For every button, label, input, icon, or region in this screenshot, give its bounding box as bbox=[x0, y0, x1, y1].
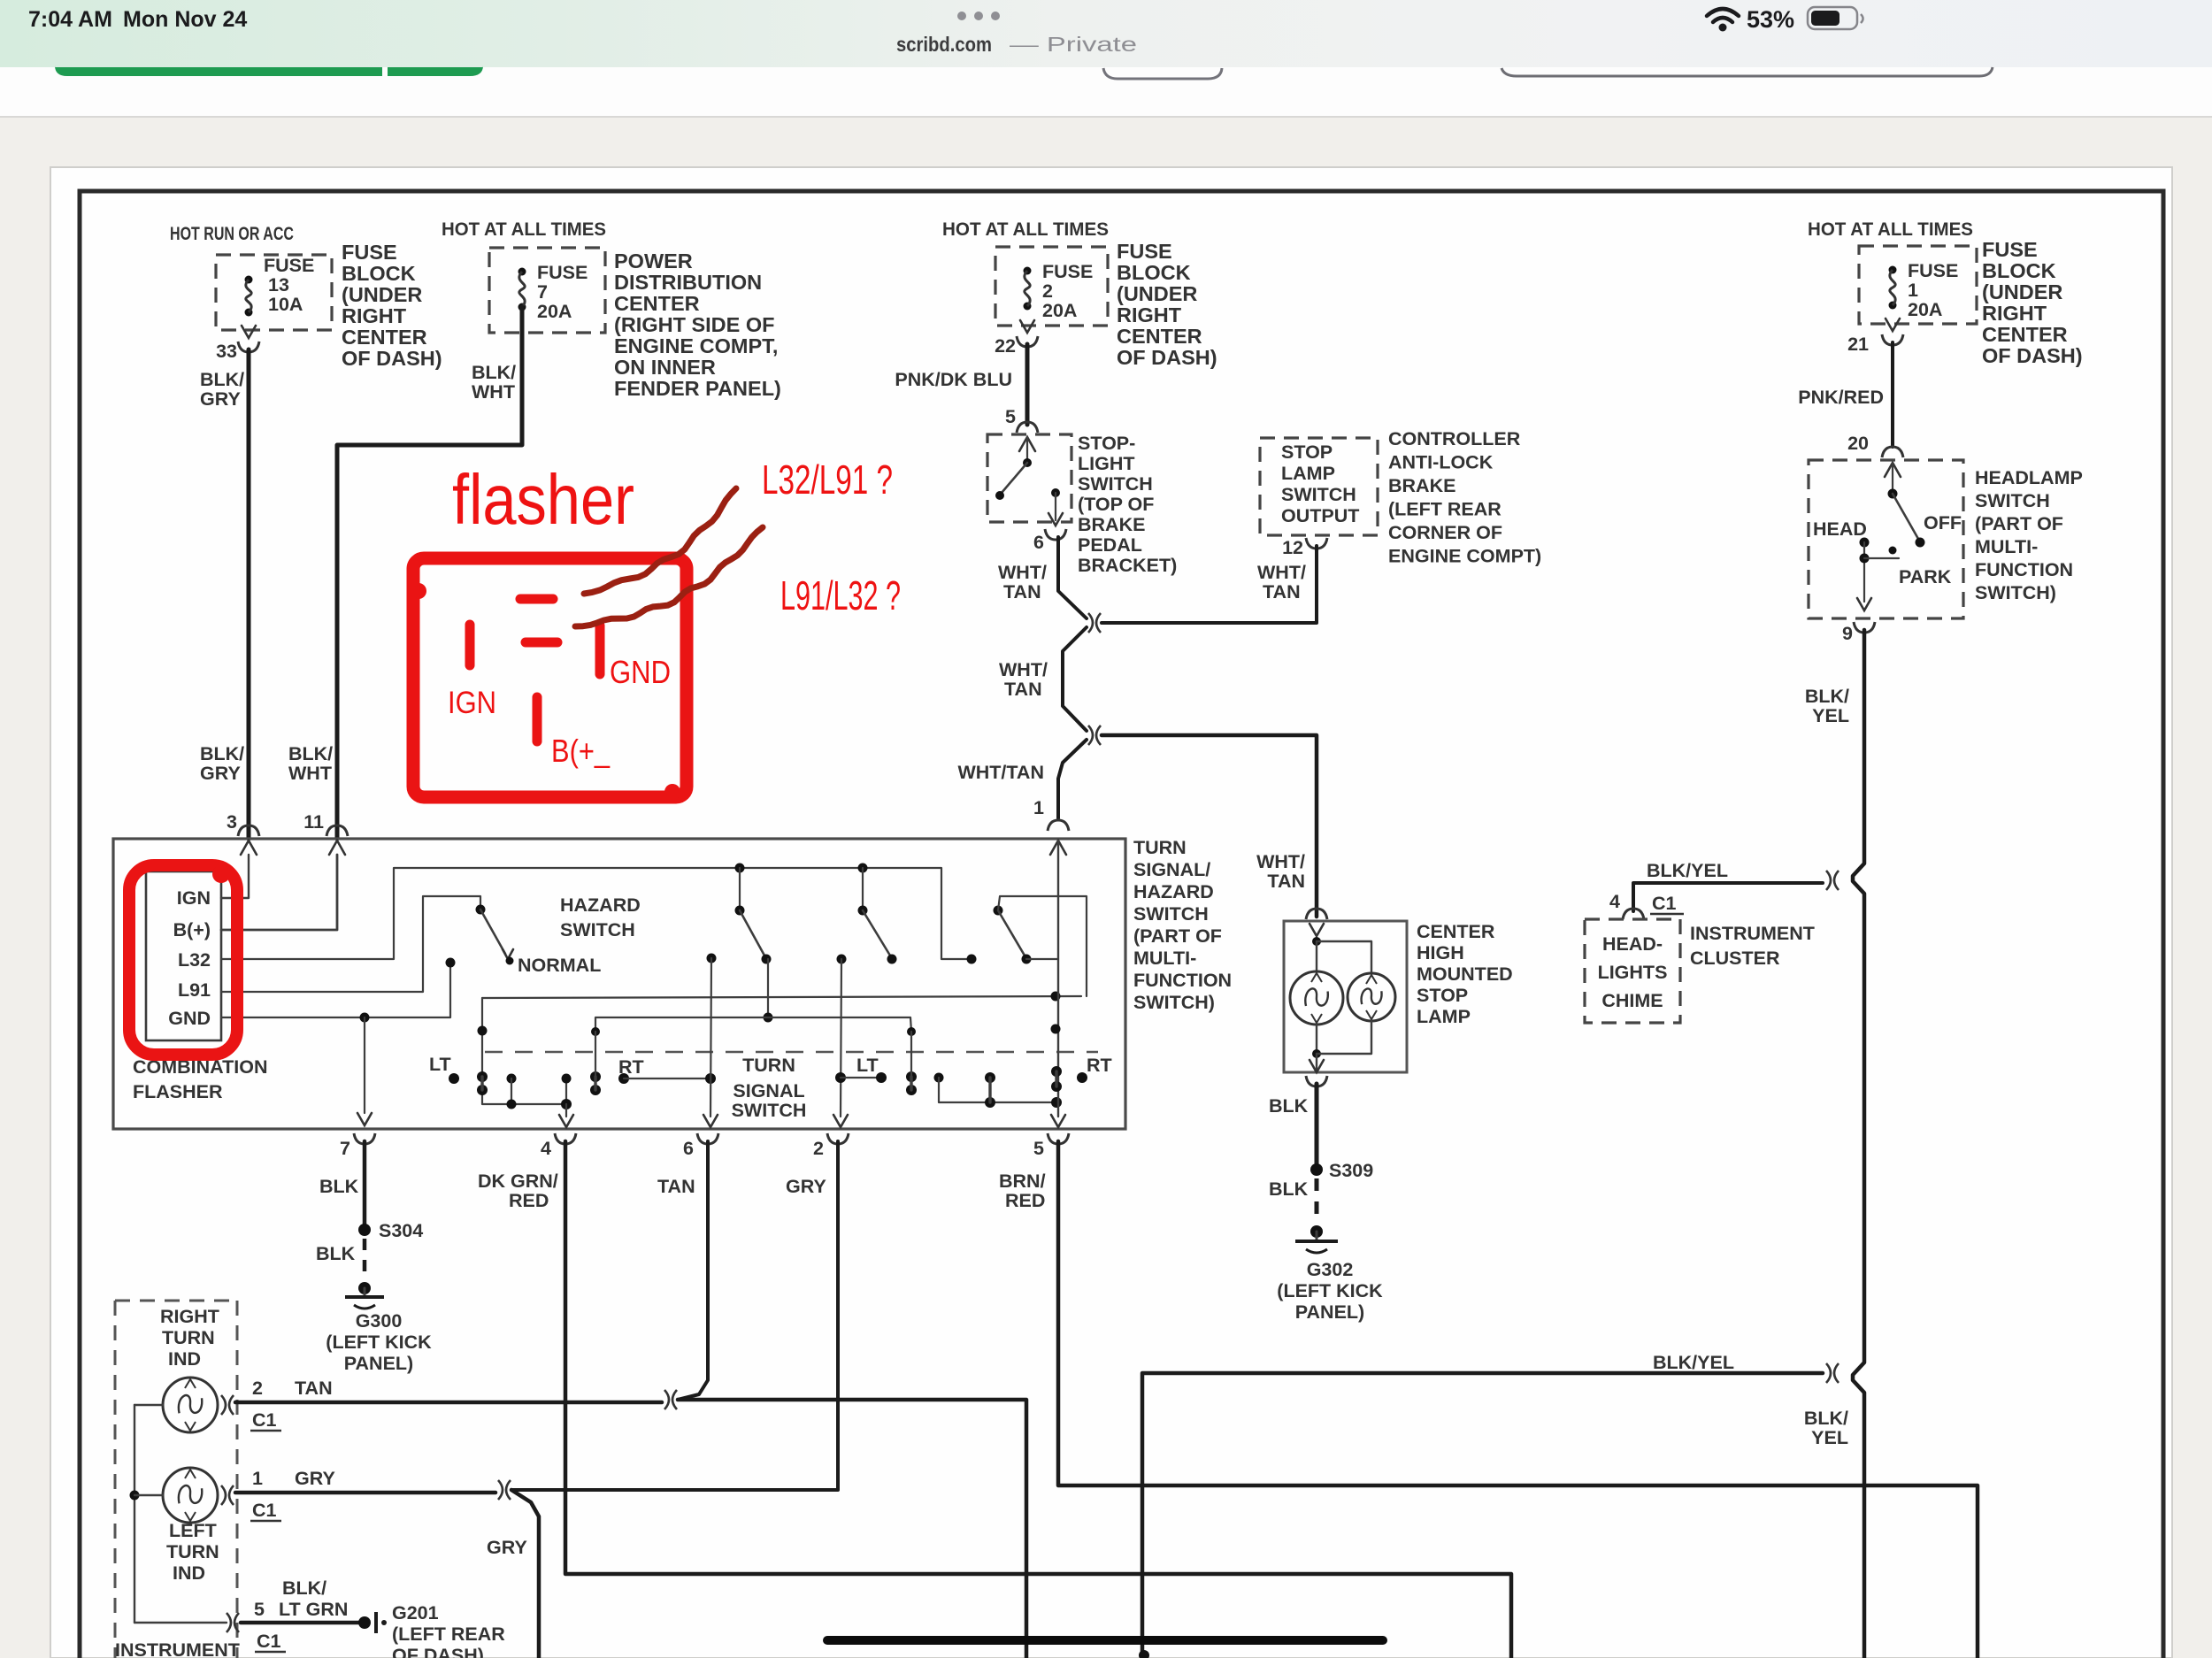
svg-text:GND: GND bbox=[168, 1008, 211, 1029]
svg-text:BLK/: BLK/ bbox=[1805, 686, 1849, 707]
svg-text:INSTRUMENT: INSTRUMENT bbox=[1690, 923, 1815, 944]
wire PNK/DK BLU bbox=[1025, 344, 1030, 425]
CHMSL bulb 2 bbox=[1348, 973, 1395, 1021]
svg-text:CORNER OF: CORNER OF bbox=[1388, 522, 1502, 543]
svg-text:3: 3 bbox=[227, 811, 237, 833]
svg-text:TURN: TURN bbox=[742, 1055, 795, 1076]
svg-text:20: 20 bbox=[1847, 433, 1869, 454]
svg-text:TAN: TAN bbox=[1003, 581, 1041, 603]
headlamp switch dashed box bbox=[1809, 460, 1963, 618]
pin4 chain contacts bbox=[449, 1073, 459, 1084]
svg-text:(PART OF: (PART OF bbox=[1975, 513, 2063, 534]
svg-text:9: 9 bbox=[1842, 623, 1853, 644]
svg-text:LIGHT: LIGHT bbox=[1078, 453, 1135, 474]
svg-text:SWITCH): SWITCH) bbox=[1133, 992, 1215, 1013]
svg-text:BLK: BLK bbox=[1269, 1178, 1309, 1200]
svg-text:OF DASH): OF DASH) bbox=[1117, 346, 1217, 369]
ground G201 bbox=[358, 1616, 371, 1629]
svg-text:IND: IND bbox=[173, 1562, 205, 1584]
svg-text:WHT: WHT bbox=[472, 381, 515, 403]
splice S304 bbox=[358, 1224, 371, 1236]
svg-text:CENTER: CENTER bbox=[342, 326, 427, 349]
svg-text:1: 1 bbox=[1908, 280, 1918, 301]
svg-text:BLK: BLK bbox=[316, 1243, 356, 1264]
svg-text:(TOP OF: (TOP OF bbox=[1078, 494, 1154, 515]
svg-text:7: 7 bbox=[340, 1138, 350, 1159]
svg-text:20A: 20A bbox=[1042, 300, 1077, 321]
svg-text:GRY: GRY bbox=[487, 1537, 527, 1558]
svg-text:WHT: WHT bbox=[288, 763, 332, 784]
svg-text:OF DASH): OF DASH) bbox=[1982, 344, 2083, 367]
svg-text:HOT AT ALL TIMES: HOT AT ALL TIMES bbox=[942, 219, 1109, 240]
connector bump pin 5 under box bbox=[1048, 1133, 1069, 1144]
svg-text:RT: RT bbox=[1087, 1055, 1112, 1076]
svg-text:WHT/: WHT/ bbox=[999, 659, 1048, 680]
svg-text:S304: S304 bbox=[379, 1220, 423, 1241]
wire B(+) to pin 11 bbox=[221, 855, 337, 930]
power distribution center dashed box bbox=[489, 248, 605, 333]
svg-text:WHT/: WHT/ bbox=[1256, 851, 1305, 872]
svg-text:MOUNTED: MOUNTED bbox=[1417, 963, 1513, 985]
fuse block 13 dashed box bbox=[216, 255, 332, 330]
svg-text:SWITCH: SWITCH bbox=[732, 1100, 807, 1121]
headlights chime dashed box bbox=[1585, 919, 1680, 1023]
LT link on pin2 bbox=[835, 1072, 846, 1083]
instrument cluster dashed box bbox=[115, 1301, 237, 1658]
svg-text:53%: 53% bbox=[1747, 6, 1794, 33]
address bar outline right bbox=[1502, 67, 1993, 76]
svg-text:LT GRN: LT GRN bbox=[279, 1599, 348, 1620]
svg-text:(LEFT KICK: (LEFT KICK bbox=[326, 1332, 432, 1353]
svg-text:LAMP: LAMP bbox=[1417, 1006, 1471, 1027]
svg-text:WHT/: WHT/ bbox=[998, 562, 1047, 583]
svg-text:flasher: flasher bbox=[452, 460, 634, 539]
svg-text:(RIGHT SIDE OF: (RIGHT SIDE OF bbox=[614, 313, 774, 336]
svg-text:GRY: GRY bbox=[200, 388, 241, 410]
svg-text:20A: 20A bbox=[1908, 299, 1942, 320]
gang stem contacts 673 bbox=[590, 1071, 601, 1082]
stop lamp switch output dashed box bbox=[1260, 438, 1378, 535]
connector bump pin 6 bbox=[1045, 529, 1066, 540]
svg-text:(UNDER: (UNDER bbox=[342, 283, 422, 306]
svg-text:12: 12 bbox=[1282, 537, 1303, 558]
svg-text:YEL: YEL bbox=[1812, 705, 1849, 726]
svg-text:7: 7 bbox=[537, 281, 548, 303]
svg-text:TAN: TAN bbox=[295, 1378, 333, 1399]
svg-text:MULTI-: MULTI- bbox=[1975, 536, 2038, 557]
connector bump pin 2 under box bbox=[827, 1133, 849, 1144]
svg-text:(LEFT REAR: (LEFT REAR bbox=[392, 1623, 505, 1645]
svg-text:BRAKE: BRAKE bbox=[1388, 475, 1455, 496]
svg-text:STOP: STOP bbox=[1281, 441, 1333, 463]
wire BLK pin7 to S304 bbox=[363, 1141, 367, 1224]
svg-text:TAN: TAN bbox=[1004, 679, 1042, 700]
svg-text:ENGINE COMPT): ENGINE COMPT) bbox=[1388, 546, 1541, 567]
svg-text:SWITCH: SWITCH bbox=[560, 919, 635, 940]
svg-text:OF DASH): OF DASH) bbox=[342, 347, 442, 370]
svg-text:CLUSTER: CLUSTER bbox=[1690, 948, 1780, 969]
svg-text:HIGH: HIGH bbox=[1417, 942, 1464, 963]
wire BLK/WHT bbox=[337, 307, 522, 839]
svg-text:FUSE: FUSE bbox=[342, 241, 397, 264]
svg-text:SWITCH: SWITCH bbox=[1078, 473, 1153, 495]
connector arcs right of lamp1 bbox=[221, 1395, 226, 1415]
turn signal switch gang dashed line bbox=[485, 1051, 1098, 1054]
svg-text:BRN/: BRN/ bbox=[999, 1171, 1046, 1192]
svg-text:CENTER: CENTER bbox=[1117, 325, 1202, 348]
wire WHT/TAN with inline connectors bbox=[1058, 537, 1087, 618]
combination flasher connector box bbox=[146, 871, 221, 1040]
red annotation: pin dash 1 bbox=[520, 595, 553, 604]
svg-text:RIGHT: RIGHT bbox=[160, 1306, 219, 1327]
wire BLK dashed to G300 bbox=[363, 1239, 367, 1281]
connector bump below fuse 2 bbox=[1017, 336, 1038, 347]
svg-text:BLK: BLK bbox=[319, 1176, 359, 1197]
svg-text:IND: IND bbox=[168, 1348, 201, 1370]
svg-text:G302: G302 bbox=[1307, 1259, 1354, 1280]
svg-text:FUNCTION: FUNCTION bbox=[1975, 559, 2073, 580]
connector bump stoplight top bbox=[1017, 422, 1038, 433]
wire IGN to pin 3 bbox=[221, 855, 249, 898]
connector bump below fuse 1 bbox=[1882, 334, 1903, 345]
svg-text:BLK/: BLK/ bbox=[1804, 1408, 1848, 1429]
wire BLK (CHMSL to S309) bbox=[1315, 1084, 1319, 1163]
wire BLK/YEL to instrument cluster bbox=[1633, 883, 1823, 911]
svg-text:OF DASH): OF DASH) bbox=[392, 1645, 484, 1658]
cluster link 1061-1194 bbox=[934, 1073, 944, 1083]
svg-text:STOP-: STOP- bbox=[1078, 433, 1135, 454]
svg-text:C1: C1 bbox=[252, 1500, 277, 1521]
red annotation: pin B+ bar bbox=[533, 697, 542, 741]
svg-text:BLK/: BLK/ bbox=[200, 743, 244, 764]
svg-text:SWITCH: SWITCH bbox=[1133, 903, 1209, 925]
wire BRN/RED bbox=[1058, 1141, 1978, 1658]
RT contact right bbox=[1077, 1072, 1087, 1083]
thick ground bus bar bbox=[827, 1636, 1383, 1645]
pin4 exit arrow bbox=[565, 1104, 567, 1117]
pin1-pin5 vertical inside box bbox=[1057, 841, 1059, 1117]
pin 2 vertical inside box bbox=[841, 959, 841, 1117]
svg-text:RED: RED bbox=[509, 1190, 549, 1211]
svg-text:(UNDER: (UNDER bbox=[1982, 280, 2062, 303]
svg-text:4: 4 bbox=[541, 1138, 551, 1159]
svg-text:7:04 AM: 7:04 AM bbox=[28, 7, 112, 32]
fuse F2 bbox=[1024, 267, 1032, 275]
popover bubble outline center bbox=[1103, 68, 1222, 79]
red annotation: pin IGN bar bbox=[465, 625, 475, 665]
connector bump pin 20 bbox=[1882, 447, 1903, 457]
red annotation: squiggle to L91/L32 bbox=[575, 527, 763, 626]
svg-text:TURN: TURN bbox=[1133, 837, 1187, 858]
svg-text:6: 6 bbox=[1033, 532, 1044, 553]
wire GRY to bottom bbox=[511, 1490, 539, 1658]
svg-text:G201: G201 bbox=[392, 1602, 439, 1623]
svg-text:FUSE: FUSE bbox=[1982, 238, 2038, 261]
svg-text:(LEFT KICK: (LEFT KICK bbox=[1277, 1280, 1383, 1301]
svg-text:ANTI-LOCK: ANTI-LOCK bbox=[1388, 452, 1494, 473]
svg-text:L91: L91 bbox=[178, 979, 211, 1001]
connector bump pin 3 bbox=[238, 825, 259, 836]
wire GND net bbox=[221, 963, 450, 1017]
fuse block 1 dashed box bbox=[1859, 246, 1977, 324]
svg-text:TAN: TAN bbox=[1267, 871, 1305, 892]
svg-text:HAZARD: HAZARD bbox=[1133, 881, 1214, 902]
hazard pole 2 bbox=[735, 864, 745, 873]
pin 6 vertical inside box bbox=[710, 958, 711, 1117]
svg-text:TAN: TAN bbox=[1263, 581, 1301, 603]
svg-text:SWITCH: SWITCH bbox=[1281, 484, 1356, 505]
svg-text:ENGINE COMPT,: ENGINE COMPT, bbox=[614, 334, 778, 357]
svg-text:33: 33 bbox=[216, 341, 237, 362]
stop-light switch contacts bbox=[1019, 437, 1035, 451]
stop-light switch dashed box bbox=[987, 434, 1071, 522]
svg-text:BLK/: BLK/ bbox=[200, 369, 244, 390]
svg-text:SWITCH: SWITCH bbox=[1975, 490, 2050, 511]
svg-text:TAN: TAN bbox=[657, 1176, 695, 1197]
wire BLK/GRY vertical bbox=[247, 349, 251, 839]
fuse block 2 dashed box bbox=[995, 247, 1108, 326]
svg-text:LAMP: LAMP bbox=[1281, 463, 1335, 484]
svg-text:RED: RED bbox=[1005, 1190, 1045, 1211]
svg-text:HEAD: HEAD bbox=[1813, 518, 1867, 540]
svg-text:LEFT: LEFT bbox=[169, 1520, 217, 1541]
svg-text:FUNCTION: FUNCTION bbox=[1133, 970, 1232, 991]
ground G302 symbol bbox=[1310, 1225, 1323, 1238]
svg-text:WHT/: WHT/ bbox=[1257, 562, 1306, 583]
connector bump pin 1 bbox=[1048, 820, 1069, 831]
hazard pole 2 throw to GND link bbox=[767, 959, 769, 1017]
svg-text:6: 6 bbox=[683, 1138, 694, 1159]
svg-text:MULTI-: MULTI- bbox=[1133, 948, 1196, 969]
stationary contact pin2 bbox=[837, 955, 847, 964]
ground G300 symbol bbox=[358, 1282, 371, 1294]
svg-text:10A: 10A bbox=[268, 294, 303, 315]
connector bump pin 9 bbox=[1854, 622, 1875, 633]
svg-text:FUSE: FUSE bbox=[1117, 240, 1172, 263]
svg-text:RIGHT: RIGHT bbox=[342, 304, 407, 327]
svg-text:BLOCK: BLOCK bbox=[342, 262, 416, 285]
svg-text:BRACKET): BRACKET) bbox=[1078, 555, 1177, 576]
svg-text:IGN: IGN bbox=[448, 686, 496, 720]
svg-text:ON INNER: ON INNER bbox=[614, 356, 716, 379]
hazard switch pole normal bbox=[476, 905, 486, 915]
wifi icon bbox=[1707, 9, 1739, 22]
svg-text:S309: S309 bbox=[1329, 1160, 1373, 1181]
svg-text:B(+): B(+) bbox=[173, 919, 211, 940]
svg-text:INSTRUMENT: INSTRUMENT bbox=[115, 1639, 240, 1658]
hazard pole 4 with hook bbox=[994, 906, 1003, 916]
svg-text:RIGHT: RIGHT bbox=[1117, 303, 1182, 326]
svg-text:FLASHER: FLASHER bbox=[133, 1081, 223, 1102]
svg-text:22: 22 bbox=[995, 335, 1016, 357]
splice S309 bbox=[1310, 1163, 1323, 1176]
fuse F1 bbox=[1889, 266, 1897, 274]
svg-text:SIGNAL/: SIGNAL/ bbox=[1133, 859, 1210, 880]
svg-text:HOT AT ALL TIMES: HOT AT ALL TIMES bbox=[1808, 219, 1973, 240]
connector bump pin 4 under box bbox=[555, 1133, 576, 1144]
wire GRY from pin2 down bbox=[511, 1141, 838, 1490]
svg-text:CENTER: CENTER bbox=[1417, 921, 1495, 942]
wire TAN from pin6 down bbox=[678, 1141, 708, 1400]
svg-text:SIGNAL: SIGNAL bbox=[733, 1080, 804, 1101]
svg-text:POWER: POWER bbox=[614, 249, 693, 272]
svg-text:L91/L32 ?: L91/L32 ? bbox=[780, 572, 901, 618]
RT link to pin6 bbox=[618, 1073, 629, 1084]
gang stem contacts 1030 bbox=[906, 1071, 917, 1082]
wire L32 net bbox=[221, 868, 966, 959]
svg-text:OUTPUT: OUTPUT bbox=[1281, 505, 1359, 526]
svg-text:TURN: TURN bbox=[162, 1327, 215, 1348]
stationary contact pin6 bbox=[707, 954, 717, 963]
svg-text:LT: LT bbox=[856, 1055, 879, 1076]
svg-text:HEADLAMP: HEADLAMP bbox=[1975, 467, 2083, 488]
svg-text:5: 5 bbox=[254, 1599, 265, 1620]
svg-text:PANEL): PANEL) bbox=[1295, 1301, 1364, 1323]
svg-text:BLK/: BLK/ bbox=[472, 362, 516, 383]
red annotation: flasher box bbox=[413, 558, 687, 797]
CHMSL internal wiring bbox=[1317, 941, 1371, 972]
svg-text:CENTER: CENTER bbox=[614, 292, 700, 315]
left turn indicator lamp bbox=[163, 1468, 218, 1523]
svg-text:1: 1 bbox=[1033, 797, 1044, 818]
svg-text:WHT/TAN: WHT/TAN bbox=[957, 762, 1044, 783]
svg-text:FUSE: FUSE bbox=[264, 255, 314, 276]
wire L91 to hazard switch bbox=[221, 896, 480, 992]
wire PNK/RED bbox=[1891, 342, 1894, 447]
divider line bbox=[0, 116, 2212, 118]
svg-text:HOT AT ALL TIMES: HOT AT ALL TIMES bbox=[442, 219, 606, 240]
svg-text:scribd.com: scribd.com bbox=[896, 33, 992, 56]
svg-text:(UNDER: (UNDER bbox=[1117, 282, 1197, 305]
svg-text:GRY: GRY bbox=[786, 1176, 826, 1197]
svg-text:PNK/RED: PNK/RED bbox=[1798, 387, 1884, 408]
svg-text:TURN: TURN bbox=[166, 1541, 219, 1562]
svg-text:11: 11 bbox=[303, 811, 324, 833]
svg-text:PEDAL: PEDAL bbox=[1078, 534, 1142, 556]
svg-text:YEL: YEL bbox=[1811, 1427, 1848, 1448]
svg-text:FUSE: FUSE bbox=[537, 262, 588, 283]
svg-text:PARK: PARK bbox=[1899, 566, 1952, 587]
svg-text:13: 13 bbox=[268, 274, 289, 296]
svg-text:BLK/YEL: BLK/YEL bbox=[1647, 860, 1728, 881]
connector bump pin 6 under box bbox=[697, 1133, 718, 1144]
svg-text:GND: GND bbox=[610, 654, 671, 690]
CHMSL bulb 1 bbox=[1290, 971, 1343, 1025]
connector bump below CHMSL bbox=[1306, 1076, 1327, 1086]
fuse F13 bbox=[245, 276, 253, 284]
svg-text:OFF: OFF bbox=[1924, 512, 1962, 533]
wire DK GRN/RED bbox=[565, 1141, 1511, 1658]
net line y1150 bbox=[595, 1017, 911, 1032]
red annotation: pin GND bar bbox=[595, 626, 605, 674]
svg-text:BLK/: BLK/ bbox=[288, 743, 333, 764]
svg-text:(LEFT REAR: (LEFT REAR bbox=[1388, 499, 1502, 520]
svg-text:C1: C1 bbox=[257, 1631, 281, 1652]
svg-text:C1: C1 bbox=[1652, 893, 1677, 914]
headlamp switch contacts bbox=[1885, 463, 1901, 477]
connector bump pin 11 bbox=[326, 825, 348, 836]
green progress bar segments bbox=[55, 65, 382, 76]
fuse F7 bbox=[518, 268, 526, 276]
red annotation: ring around flasher connector bbox=[129, 865, 237, 1055]
left vertical link of lamps bbox=[134, 1405, 135, 1623]
svg-text:B(+_: B(+_ bbox=[551, 733, 611, 769]
svg-text:BLK/YEL: BLK/YEL bbox=[1653, 1352, 1734, 1373]
svg-text:FUSE: FUSE bbox=[1042, 261, 1093, 282]
svg-text:DISTRIBUTION: DISTRIBUTION bbox=[614, 271, 762, 294]
svg-text:BLK: BLK bbox=[1269, 1095, 1309, 1117]
svg-text:1: 1 bbox=[252, 1468, 263, 1489]
svg-text:HOT RUN OR ACC: HOT RUN OR ACC bbox=[170, 223, 294, 244]
svg-text:LT: LT bbox=[429, 1054, 451, 1075]
wire GND down to pin 7 bbox=[364, 1017, 365, 1113]
svg-text:BLOCK: BLOCK bbox=[1982, 259, 2056, 282]
svg-text:C1: C1 bbox=[252, 1409, 277, 1431]
svg-text:(PART OF: (PART OF bbox=[1133, 925, 1222, 947]
connector bump below fuse 13 bbox=[238, 342, 259, 352]
connector bump pin 7 under box bbox=[354, 1133, 375, 1144]
svg-text:HAZARD: HAZARD bbox=[560, 894, 641, 916]
svg-text:CENTER: CENTER bbox=[1982, 323, 2068, 346]
svg-text:GRY: GRY bbox=[295, 1468, 335, 1489]
svg-text:FENDER PANEL): FENDER PANEL) bbox=[614, 377, 781, 400]
svg-text:STOP: STOP bbox=[1417, 985, 1468, 1006]
hazard pole 3 bbox=[858, 864, 868, 873]
wire BLK/YEL right side bbox=[1853, 630, 1864, 1658]
svg-text:BLOCK: BLOCK bbox=[1117, 261, 1191, 284]
tab dots bbox=[957, 12, 966, 20]
svg-text:L32/L91 ?: L32/L91 ? bbox=[762, 457, 893, 503]
svg-text:FUSE: FUSE bbox=[1908, 260, 1958, 281]
svg-text:20A: 20A bbox=[537, 301, 572, 322]
red annotation: pin dash 2 bbox=[526, 638, 557, 648]
svg-text:L32: L32 bbox=[178, 949, 211, 971]
svg-text:BLK/: BLK/ bbox=[282, 1577, 326, 1599]
right turn indicator lamp bbox=[163, 1378, 218, 1432]
svg-text:DK GRN/: DK GRN/ bbox=[478, 1171, 558, 1192]
svg-text:G300: G300 bbox=[356, 1310, 403, 1332]
svg-text:2: 2 bbox=[252, 1378, 263, 1399]
svg-text:NORMAL: NORMAL bbox=[518, 955, 601, 976]
svg-text:5: 5 bbox=[1005, 406, 1016, 427]
battery icon bbox=[1808, 7, 1857, 29]
svg-text:2: 2 bbox=[1042, 280, 1053, 302]
svg-text:BRAKE: BRAKE bbox=[1078, 514, 1145, 535]
svg-text:LIGHTS: LIGHTS bbox=[1598, 962, 1668, 983]
svg-text:RIGHT: RIGHT bbox=[1982, 302, 2047, 325]
svg-text:21: 21 bbox=[1847, 334, 1869, 355]
svg-text:CHIME: CHIME bbox=[1601, 990, 1663, 1011]
svg-text:Mon Nov 24: Mon Nov 24 bbox=[123, 7, 247, 32]
svg-text:HEAD-: HEAD- bbox=[1602, 933, 1663, 955]
svg-text:2: 2 bbox=[813, 1138, 824, 1159]
net line y1126 bbox=[482, 996, 1081, 998]
svg-text:GRY: GRY bbox=[200, 763, 241, 784]
svg-text:SWITCH): SWITCH) bbox=[1975, 582, 2056, 603]
svg-text:PNK/DK BLU: PNK/DK BLU bbox=[895, 369, 1012, 390]
svg-text:— Private: — Private bbox=[1010, 33, 1137, 56]
svg-text:CONTROLLER: CONTROLLER bbox=[1388, 428, 1521, 449]
wire TAN to bottom bbox=[678, 1400, 1026, 1658]
connector bump pin 12 bbox=[1306, 538, 1327, 549]
svg-text:5: 5 bbox=[1033, 1138, 1044, 1159]
turn signal hazard switch box bbox=[113, 839, 1125, 1129]
svg-text:IGN: IGN bbox=[177, 887, 211, 909]
wire BLK dashed to ground bbox=[1315, 1178, 1319, 1224]
svg-text:4: 4 bbox=[1609, 891, 1620, 912]
center high mounted stop lamp box bbox=[1284, 921, 1407, 1072]
svg-text:PANEL): PANEL) bbox=[344, 1353, 413, 1374]
